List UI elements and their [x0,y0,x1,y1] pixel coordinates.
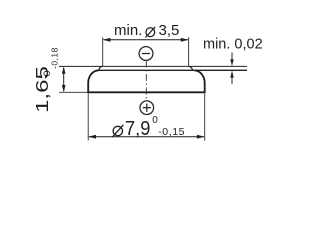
svg-text:0: 0 [43,70,53,77]
svg-text:min. 0,02: min. 0,02 [203,36,263,52]
svg-text:3,5: 3,5 [159,22,180,39]
svg-text:min.: min. [114,22,142,39]
svg-text:0: 0 [152,115,158,126]
svg-text:7,9: 7,9 [125,117,150,140]
svg-text:-0,15: -0,15 [158,126,185,138]
svg-text:-0,18: -0,18 [49,47,59,69]
